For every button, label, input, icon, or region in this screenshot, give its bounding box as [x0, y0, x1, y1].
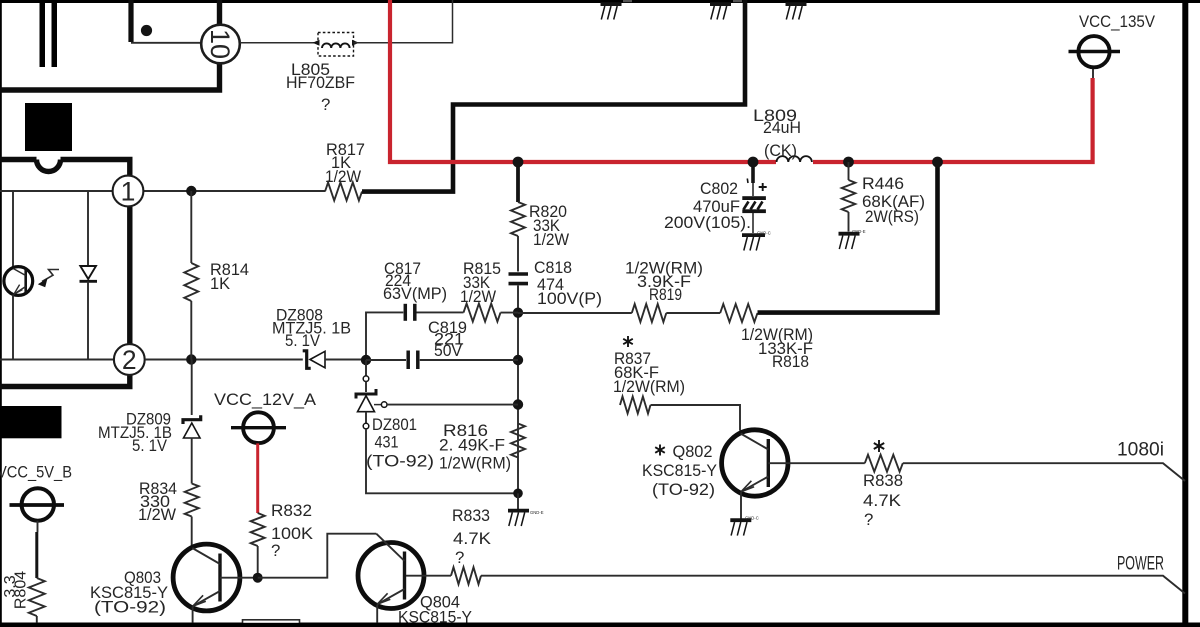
photo-LED anode wire	[87, 192, 89, 266]
svg-text:1/2W: 1/2W	[138, 505, 176, 524]
transistor Q803	[173, 544, 240, 611]
svg-text:R446: R446	[862, 174, 904, 193]
IC body 2 (black rectangle)	[0, 406, 62, 438]
shunt regulator DZ801 (431)	[365, 360, 367, 376]
zener diode DZ809	[183, 415, 201, 424]
wire to R819	[518, 312, 632, 314]
optocoupler transistor circle	[4, 267, 33, 296]
svg-text:(TO-92): (TO-92)	[652, 480, 715, 499]
svg-text:1/2W: 1/2W	[533, 230, 569, 249]
junction dot	[513, 489, 523, 499]
wire pin1 right to R817	[144, 190, 326, 192]
svg-text:C802: C802	[700, 179, 738, 198]
svg-text:DZ801: DZ801	[372, 415, 417, 434]
wire node to Q804 collector	[258, 534, 377, 578]
svg-text:?: ?	[271, 541, 280, 560]
svg-text:R804: R804	[12, 571, 29, 609]
svg-text:2: 2	[122, 345, 137, 375]
svg-text:KSC815-Y: KSC815-Y	[642, 461, 717, 480]
capacitor C819	[366, 359, 406, 361]
wire pin2 to DZ808	[145, 359, 303, 361]
svg-text:VCC_135V: VCC_135V	[1079, 12, 1156, 31]
page border left	[0, 0, 2, 627]
opto emitter slant + arrow	[14, 287, 26, 295]
resistor R819	[632, 304, 667, 322]
wire node2 down to DZ809	[191, 360, 193, 416]
wire to POWER port	[481, 576, 1185, 594]
svg-text:1/2W(RM): 1/2W(RM)	[439, 454, 511, 473]
transistor Q802	[722, 430, 788, 496]
node junction dot	[186, 186, 196, 196]
Q803 base wire to node	[220, 577, 258, 579]
svg-text:2W(RS): 2W(RS)	[865, 207, 919, 226]
Q803 emitter wire to bottom	[192, 607, 194, 624]
junction dot on red bus	[932, 157, 943, 168]
connector box outline (thick L)	[0, 0, 220, 90]
pin marker dot	[141, 25, 152, 36]
junction dots	[513, 308, 523, 318]
bottom node wire y359	[0, 359, 114, 361]
svg-text:431: 431	[375, 433, 399, 452]
svg-text:5. 1V: 5. 1V	[285, 331, 321, 350]
inductor L805 (dashed filter box)	[318, 33, 354, 57]
page border bottom (over box)	[0, 623, 1200, 627]
electrolytic capacitor C802	[751, 164, 755, 183]
Q802 emitter wire + ground	[740, 492, 742, 519]
resistor R446	[848, 162, 850, 180]
capacitor C818	[509, 272, 529, 276]
net stub marks at top edge	[623, 0, 632, 2]
ground (top 3)	[786, 2, 807, 6]
junction dot on red bus	[843, 157, 854, 168]
resistor R834	[185, 484, 199, 517]
capacitor C817	[404, 304, 408, 321]
svg-text:200V(105).: 200V(105).	[664, 213, 751, 232]
svg-text:R832: R832	[271, 501, 312, 520]
resistor R814	[190, 191, 192, 263]
resistor R818	[720, 304, 757, 322]
component box at bottom	[243, 620, 300, 627]
svg-text:1080i: 1080i	[1117, 439, 1164, 461]
resistor R815	[464, 304, 501, 322]
ground below C802	[742, 233, 765, 237]
svg-text:?: ?	[321, 95, 330, 114]
ground below R446	[839, 232, 860, 236]
photo-LED cathode wire	[87, 281, 89, 359]
wire pin1 to left, down to optocoupler	[0, 190, 113, 192]
svg-text:?: ?	[864, 510, 873, 529]
zener diode DZ808	[303, 351, 311, 369]
red wire VCC_12V_A to R832	[256, 443, 259, 513]
svg-text:24uH: 24uH	[763, 118, 801, 137]
svg-text:R833: R833	[452, 506, 490, 525]
svg-text:GND-E: GND-E	[530, 510, 544, 515]
pin 10 circle	[201, 25, 240, 64]
node junction dot	[186, 354, 196, 364]
svg-text:100V(P): 100V(P)	[537, 289, 602, 308]
svg-text:1/2W: 1/2W	[325, 167, 361, 186]
resistor R816	[511, 424, 525, 458]
svg-text:5. 1V: 5. 1V	[132, 436, 168, 455]
svg-text:?: ?	[455, 548, 464, 567]
inductor L809 coil	[777, 156, 812, 162]
resistor R838	[865, 455, 903, 472]
thick wire R818 up to red bus	[758, 164, 938, 313]
transistor Q804	[358, 543, 424, 609]
page border top	[0, 0, 1200, 3]
junction dot on red bus	[748, 157, 759, 168]
svg-text:50V: 50V	[434, 341, 463, 360]
junction dot on red bus	[513, 157, 524, 168]
ground below R816	[517, 493, 519, 509]
IC body (black rectangle)	[25, 103, 72, 151]
resistor R820	[516, 164, 520, 202]
thick wire R817 to upper bus	[362, 0, 745, 192]
wire to 1080i port	[903, 463, 1185, 481]
connector box stub (thick vertical left of pin 10)	[128, 0, 133, 42]
svg-text:1/2W(RM): 1/2W(RM)	[613, 377, 685, 396]
branch wire up from DZ808 node	[366, 312, 403, 360]
svg-text:GND-C: GND-C	[757, 231, 771, 236]
resistor R837	[620, 397, 651, 414]
ground (top 2)	[710, 2, 731, 6]
resistor R832	[251, 513, 265, 546]
wire pin10 to L805	[240, 42, 318, 44]
svg-text:(TO-92): (TO-92)	[366, 452, 434, 471]
light arrow into opto	[42, 270, 59, 282]
svg-text:GND-E: GND-E	[852, 229, 866, 234]
pin 1 circle	[113, 176, 144, 207]
wire VCC_5V_B down	[37, 521, 39, 532]
svg-text:HF70ZBF: HF70ZBF	[286, 73, 355, 92]
svg-text:10: 10	[205, 29, 235, 59]
opto emitter wire	[12, 295, 14, 360]
svg-text:R838: R838	[863, 471, 903, 490]
svg-text:Q802: Q802	[673, 442, 713, 461]
node junction dot	[361, 355, 371, 365]
wire R837 to Q802 collector	[651, 405, 741, 431]
svg-text:1: 1	[121, 177, 136, 207]
svg-text:63V(MP): 63V(MP)	[383, 284, 447, 303]
svg-text:POWER: POWER	[1117, 553, 1164, 575]
svg-text:GND-C: GND-C	[745, 516, 759, 521]
svg-text:1/2W: 1/2W	[460, 287, 496, 306]
resistor R817	[325, 183, 362, 201]
thick bus line with notch and corner down to lower bus	[0, 160, 130, 387]
opto collector slant	[13, 269, 26, 276]
svg-text:(TO-92): (TO-92)	[94, 598, 166, 617]
transformer core bar 2	[52, 3, 58, 67]
photo-LED diode triangle	[80, 266, 96, 279]
Q802 base wire to R838	[768, 462, 865, 464]
resistor R833	[406, 575, 451, 577]
notch arc	[37, 160, 61, 172]
pin 2 circle	[114, 344, 145, 375]
ground (top 1)	[601, 2, 622, 6]
wire to pin 10	[131, 42, 202, 44]
svg-text:(CK): (CK)	[764, 141, 797, 160]
bus bar right edge	[1182, 0, 1188, 627]
svg-text:1K: 1K	[210, 274, 230, 293]
transformer core bar 1	[40, 3, 46, 67]
svg-text:VCC_5V_B: VCC_5V_B	[0, 463, 72, 482]
svg-text:4.7K: 4.7K	[453, 529, 491, 548]
wire L805 right, up to top edge	[354, 0, 453, 43]
svg-text:R818: R818	[772, 352, 809, 371]
svg-text:VCC_12V_A: VCC_12V_A	[214, 390, 317, 409]
node junction dot	[253, 573, 263, 583]
svg-text:R819: R819	[649, 285, 682, 304]
Q804 emitter wire to bottom	[376, 605, 378, 624]
photo-LED cathode bar	[80, 280, 98, 283]
svg-text:4.7K: 4.7K	[863, 491, 901, 510]
resistor R804	[29, 578, 45, 616]
red VCC_135V bus	[390, 0, 776, 162]
svg-text:2. 49K-F: 2. 49K-F	[439, 436, 505, 455]
node rail wire	[517, 311, 519, 493]
page border bottom	[0, 623, 1200, 627]
opto base bar	[24, 270, 27, 293]
